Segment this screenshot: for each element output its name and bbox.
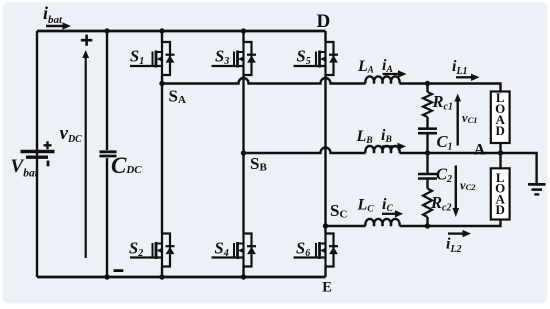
battery Vbat — [21, 141, 55, 166]
wire: leg 1 upper — [161, 31, 163, 42]
resistor Rc1 — [423, 92, 432, 117]
junction: leg 1 on rail E — [159, 274, 164, 279]
transistor S4 — [212, 234, 257, 267]
wire: leg 1 lower — [161, 267, 163, 278]
svg-text:D: D — [496, 123, 505, 138]
inductor LB — [365, 146, 399, 153]
voltage arrow vDC with + and - — [60, 35, 124, 271]
voltage arrow vC2 — [453, 166, 477, 218]
wire: phase A to load 1 — [400, 84, 501, 93]
junction: Cdc bottom on rail E — [104, 274, 109, 279]
wire: C1 to node A — [426, 133, 428, 153]
inductor LC — [365, 219, 399, 226]
junction: Cdc top on rail D — [104, 28, 109, 33]
junction: loads midpoint on node A rail — [498, 150, 503, 155]
transistor S5 — [294, 42, 339, 75]
junction: C1-C2 on node A rail — [425, 150, 430, 155]
wire: node A to C2 — [426, 153, 428, 174]
wire: phase A line with crossover hops — [162, 78, 366, 83]
current arrow iB — [381, 127, 406, 150]
svg-text:E: E — [322, 280, 332, 296]
current arrow i_bat — [43, 3, 71, 30]
junction: Rc1 top on phase A line — [425, 81, 430, 86]
transistor S1 — [130, 42, 175, 75]
wire: load2 top stub — [499, 153, 501, 168]
junction: phase C tap on leg 3 — [323, 223, 328, 228]
wire: load1 bottom stub — [499, 142, 501, 153]
wire: leg 3 upper — [324, 31, 326, 42]
junction: leg 2 on rail D — [241, 28, 246, 33]
wire: node A rail to ground — [400, 153, 537, 184]
capacitor C1 — [418, 129, 437, 134]
junction: leg 1 on rail D — [159, 28, 164, 33]
svg-text:D: D — [496, 202, 505, 217]
capacitor CDC — [100, 152, 117, 156]
wire: bottom DC rail E — [37, 276, 326, 279]
wire: left DC bus vertical — [36, 31, 38, 277]
resistor Rc2 — [423, 189, 432, 218]
wire: leg 2 upper — [242, 31, 244, 42]
inductor LA — [365, 76, 399, 83]
transistor S6 — [294, 234, 339, 267]
wire: phase C to load 2 — [400, 220, 501, 227]
junction: leg 2 on rail E — [241, 274, 246, 279]
wire: Rc1 top stub — [426, 84, 428, 93]
current arrow iL1 — [452, 58, 480, 81]
wire: Rc2 bottom stub — [426, 217, 428, 226]
wire: top DC rail D — [37, 30, 326, 33]
wire: leg 2 middle — [242, 75, 244, 234]
load 1 box — [491, 90, 510, 143]
wire: C2 to Rc2 — [426, 179, 428, 189]
svg-text:A: A — [474, 141, 486, 158]
load 2 box — [491, 168, 510, 219]
transistor S2 — [130, 234, 175, 267]
wire: leg 3 lower — [324, 267, 326, 278]
wire: phase C line — [326, 225, 366, 227]
wire: phase B line with crossover hop — [244, 148, 366, 154]
wire: leg 1 middle — [161, 75, 163, 234]
junction: Rc2 bottom on phase C line — [425, 223, 430, 228]
voltage arrow vC1 — [454, 94, 477, 146]
capacitor C2 — [418, 174, 437, 179]
current arrow iL2 — [446, 230, 471, 255]
wire: Cdc branch — [106, 31, 108, 277]
current arrow iA — [382, 57, 407, 78]
wire: leg 3 middle — [324, 75, 326, 234]
junction: phase A tap on leg 1 — [159, 81, 164, 86]
ground — [528, 184, 546, 194]
svg-text:D: D — [317, 11, 331, 32]
transistor S3 — [212, 42, 257, 75]
current arrow iC — [382, 196, 403, 218]
wire: leg 2 lower — [242, 267, 244, 278]
wire: Rc1 to C1 — [426, 117, 428, 128]
junction: phase B tap on leg 2 — [241, 150, 246, 155]
